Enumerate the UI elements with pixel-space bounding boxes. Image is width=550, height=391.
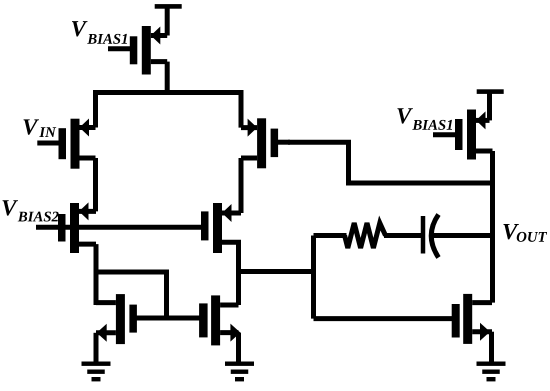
transistor M4 (cascode PMOS, V_BIAS2): source arrow (79, 202, 89, 220)
transistor M8 (output stage current source PMOS, V_BIAS1): source arrow (476, 111, 486, 129)
label V_BIAS2 (2, 200, 18, 215)
transistor M6 (mirror NMOS, diode connected): gate bar (129, 305, 137, 333)
transistor M9 (output NMOS): gate bar (452, 304, 460, 338)
wire: VDD bar to M8 source (487, 92, 492, 121)
wire: vertical joining RC branch and output gate line (311, 236, 316, 319)
transistor M1 (tail current source, V_BIAS1): source arrow (151, 27, 161, 45)
transistor M7 (mirror NMOS output of first stage): gate bar (199, 303, 208, 337)
wire: output NMOS gate line (314, 316, 454, 321)
transistor M3 (diff pair right PMOS): gate lead (276, 140, 290, 145)
transistor M3 (diff pair right PMOS): source arrow (248, 119, 258, 137)
resistor R (compensation) (345, 223, 386, 248)
transistor M8 (output stage current source PMOS, V_BIAS1): bottom lead (source/drain) (476, 149, 493, 154)
wire: M3 drain down to M5 source (239, 158, 244, 213)
transistor M2 (input PMOS, V_IN): gate bar (59, 128, 67, 159)
transistor M9 (output NMOS): source arrow (480, 323, 490, 341)
wire: V_OUT line (M8 drain to M9 drain) (490, 151, 495, 303)
transistor M2 (input PMOS, V_IN): gate lead (37, 141, 60, 146)
power supply bar VDD (top left) (155, 4, 182, 9)
transistor M3 (diff pair right PMOS): channel bar (257, 118, 266, 168)
transistor M3 (diff pair right PMOS): bottom lead (source/drain) (241, 156, 257, 161)
transistor M4 (cascode PMOS, V_BIAS2): top lead (source/drain) (79, 209, 96, 214)
label V_IN (23, 119, 39, 134)
transistor M4 (cascode PMOS, V_BIAS2): bottom lead (source/drain) (79, 242, 96, 247)
wire: resistor to capacitor lead (384, 233, 422, 238)
transistor M3 (diff pair right PMOS): gate bar (271, 129, 279, 158)
transistor M4 (cascode PMOS, V_BIAS2): channel bar (70, 203, 79, 253)
transistor M5 (cascode PMOS, second): top lead (source/drain) (222, 211, 241, 216)
transistor M2 (input PMOS, V_IN): channel bar (71, 119, 80, 169)
label V_BIAS1 (left) (72, 21, 88, 36)
transistor M2 (input PMOS, V_IN): source arrow (80, 119, 90, 137)
transistor M9 (output NMOS): top lead (source/drain) (472, 300, 492, 305)
transistor M8 (output stage current source PMOS, V_BIAS1): top lead (source/drain) (476, 118, 490, 123)
transistor M9 (output NMOS): channel bar (463, 294, 472, 344)
power supply bar VDD (top right) (477, 89, 504, 94)
transistor M7 (mirror NMOS output of first stage): source arrow (230, 324, 240, 342)
transistor M7 (mirror NMOS output of first stage): top lead (source/drain) (220, 303, 238, 308)
wire: feedback from V_OUT to M3 gate (288, 142, 493, 183)
capacitor C: curved plate (431, 215, 438, 258)
wire: M4 drain down to current mirror node A (94, 244, 99, 305)
capacitor C (compensation): flat plate (421, 216, 426, 254)
wire: tail rail to both differential pair sources (96, 93, 242, 128)
transistor M5 (cascode PMOS, second): bottom lead (source/drain) (222, 240, 241, 245)
wire: M7 source to ground (236, 333, 241, 363)
transistor M5 (cascode PMOS, second): channel bar (213, 203, 222, 253)
label V_BIAS1 (right) (397, 108, 413, 123)
wire: capacitor to V_OUT line (432, 233, 493, 238)
wire: VDD bar to M1 source (165, 6, 170, 36)
transistor M1 (tail current source, V_BIAS1): channel bar (142, 26, 151, 75)
wire: V_BIAS2 gate line to M4 and M5 gates (36, 225, 204, 230)
wire: M5 drain / M7 drain vertical at second stage node (236, 242, 241, 305)
wire: M2 drain down to M4 source (93, 158, 98, 211)
transistor M6 (mirror NMOS, diode connected): top lead (source/drain) (96, 300, 116, 305)
transistor M1 (tail current source, V_BIAS1): bottom lead (source/drain) (151, 59, 167, 64)
transistor M9 (output NMOS): bottom lead (source/drain) (472, 329, 492, 334)
wire: mirror gate line between M6 and M7 (131, 316, 204, 321)
wire: node A diode connection to mirror gate line (96, 272, 167, 318)
ground symbol (left) (82, 362, 111, 366)
ground symbol (right) (477, 362, 506, 366)
transistor M1 (tail current source, V_BIAS1): top lead (source/drain) (151, 33, 167, 38)
transistor M5 (cascode PMOS, second): source arrow (222, 204, 232, 222)
transistor M6 (mirror NMOS, diode connected): bottom lead (source/drain) (96, 330, 116, 335)
wire: M1 drain to differential pair tail rail (165, 62, 170, 95)
transistor M7 (mirror NMOS output of first stage): bottom lead (source/drain) (220, 330, 238, 335)
wire: M6 source to ground (94, 333, 99, 363)
transistor M2 (input PMOS, V_IN): bottom lead (source/drain) (80, 156, 96, 161)
transistor M8 (output stage current source PMOS, V_BIAS1): channel bar (467, 110, 476, 160)
label V_OUT (503, 224, 519, 239)
transistor M7 (mirror NMOS output of first stage): channel bar (211, 295, 220, 345)
transistor M1 (tail current source, V_BIAS1): gate lead (108, 46, 132, 51)
transistor M1 (tail current source, V_BIAS1): gate bar (130, 36, 138, 64)
transistor M4 (cascode PMOS, V_BIAS2): gate bar (58, 214, 66, 242)
transistor M5 (cascode PMOS, second): gate bar (201, 211, 209, 240)
transistor M2 (input PMOS, V_IN): top lead (source/drain) (80, 125, 96, 130)
wire: RC branch left lead (314, 233, 347, 238)
wire: M9 source to ground (489, 332, 494, 363)
ground symbol (middle) (225, 362, 254, 366)
transistor M6 (mirror NMOS, diode connected): channel bar (116, 294, 125, 344)
transistor M8 (output stage current source PMOS, V_BIAS1): gate lead (433, 132, 457, 137)
transistor M8 (output stage current source PMOS, V_BIAS1): gate bar (455, 119, 463, 150)
transistor M3 (diff pair right PMOS): top lead (source/drain) (241, 125, 257, 130)
transistor M6 (mirror NMOS, diode connected): source arrow (97, 324, 107, 342)
wire: second stage node to RC / output gate vertical (239, 269, 314, 274)
